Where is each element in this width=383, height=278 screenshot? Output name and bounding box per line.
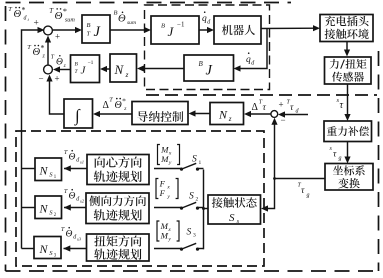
svg-text:N: N	[39, 242, 49, 256]
svg-text:Θ: Θ	[118, 14, 126, 25]
svg-text:−: −	[281, 115, 286, 125]
wire: contact state block to switch bus	[204, 208, 209, 210]
svg-text:Θ: Θ	[33, 47, 41, 58]
wire: planner block 3 to N_S3	[64, 248, 87, 250]
svg-text:*: *	[21, 5, 25, 14]
outer dashed frame bottom edge	[6, 270, 379, 272]
block robot 机器人	[214, 16, 261, 44]
svg-text:q: q	[246, 55, 251, 65]
block integrator	[64, 99, 93, 128]
svg-text:τ: τ	[263, 103, 267, 113]
svg-text:N: N	[114, 62, 125, 77]
svg-text:+: +	[55, 32, 60, 42]
svg-text:S: S	[187, 227, 192, 237]
wire: switch S3 to planner block 3	[154, 248, 182, 250]
wire: S3 contact stub	[198, 248, 204, 250]
svg-text:Θ: Θ	[66, 230, 73, 240]
block coordinate transform 坐标系变换	[325, 164, 373, 191]
svg-text:s3: s3	[77, 236, 82, 241]
block N_S3	[34, 237, 61, 259]
svg-text:x: x	[167, 227, 171, 233]
svg-text:τ: τ	[301, 186, 305, 196]
svg-text:M: M	[160, 154, 169, 164]
outer dashed frame left edge	[5, 6, 7, 271]
wire: sensor to gravity compensation	[347, 84, 349, 119]
block force/torque sensor 力/扭矩传感器	[325, 57, 372, 84]
wire: contact-state switch bus	[203, 170, 205, 250]
block charging plug contact environment 充电插头接触环境	[320, 15, 373, 42]
svg-text:−: −	[39, 73, 44, 83]
svg-text:d: d	[24, 16, 27, 22]
svg-text:T: T	[109, 97, 113, 104]
block Nz 2	[210, 103, 244, 125]
svg-text:*: *	[40, 43, 44, 52]
wire: coordinate transform output left	[275, 178, 326, 180]
summing junction 3	[271, 111, 278, 118]
wire: admittance control to integrator	[96, 113, 133, 115]
svg-text:sum: sum	[65, 17, 75, 23]
svg-text:τ: τ	[340, 100, 344, 111]
wire: B/T J^-1 to junction 2	[56, 69, 71, 71]
wire: BJ to Nz	[140, 68, 185, 70]
wire: planner block 2 to N_S2	[64, 207, 86, 209]
svg-text:Θ: Θ	[115, 100, 122, 111]
svg-text:z: z	[63, 63, 66, 69]
svg-text:Θ: Θ	[69, 153, 76, 163]
svg-text:S: S	[192, 155, 197, 165]
controller region dashed divider	[146, 94, 377, 96]
wire: N_S3 to left bus	[22, 248, 35, 250]
block B/T J^-1	[71, 55, 100, 83]
svg-text:B: B	[87, 22, 91, 29]
svg-text:−1: −1	[88, 60, 94, 66]
svg-text:T: T	[27, 44, 31, 51]
wire: junction 2 up to junction 1	[47, 38, 49, 65]
wire: switch S2 to planner block 2	[154, 207, 182, 209]
svg-text:x: x	[166, 185, 170, 191]
block admittance control 导纳控制	[132, 102, 188, 125]
switch S1	[182, 163, 197, 169]
svg-text:3: 3	[193, 233, 196, 239]
svg-text:1: 1	[199, 160, 202, 166]
svg-text:*: *	[122, 96, 126, 105]
svg-text:S: S	[229, 212, 235, 224]
svg-text:z: z	[228, 115, 232, 123]
robot subsystem dashed box	[145, 5, 270, 90]
svg-text:T: T	[87, 31, 91, 38]
svg-text:*: *	[63, 7, 67, 16]
svg-text:y: y	[167, 237, 171, 243]
svg-text:N: N	[39, 201, 49, 215]
svg-text:τ: τ	[333, 150, 337, 160]
block BJ^-1	[151, 16, 199, 44]
matrix [Mx;My] row 3	[157, 221, 159, 241]
svg-text:τ: τ	[290, 103, 294, 113]
svg-text:F: F	[159, 188, 166, 198]
matrix [Fx;Fy] row 2	[156, 179, 158, 199]
svg-text:Θ: Θ	[69, 192, 76, 202]
wire: planner block 1 to N_S1	[64, 168, 87, 170]
outer dashed frame top edge	[6, 2, 292, 4]
block N_S1	[35, 158, 62, 181]
block N_S2	[35, 196, 62, 219]
wire: tau_g down to contact state block	[264, 179, 275, 209]
wire: gravity compensation to coordinate transform	[347, 142, 349, 162]
wire: S1 contact stub	[198, 168, 204, 170]
svg-text:2: 2	[196, 197, 199, 203]
block centripetal trajectory planning 向心方向轨迹规划	[87, 155, 149, 185]
svg-text:z: z	[125, 70, 129, 79]
wire: junction 3 to Nz2	[247, 113, 271, 115]
block contact state 接触状态	[208, 195, 261, 224]
block Nz (nullspace) 1	[110, 54, 137, 82]
wire: robot to charging-plug environment	[261, 27, 318, 29]
wire: switch S1 to planner block 1	[154, 168, 182, 170]
matrix [Mx;My] row 1	[158, 145, 160, 165]
summing junction 2	[44, 65, 53, 74]
svg-text:B: B	[161, 23, 165, 30]
svg-text:y: y	[168, 160, 172, 166]
wire: B/T J to BJ^-1	[110, 29, 149, 31]
svg-text:S: S	[189, 191, 194, 201]
svg-text:Δ: Δ	[252, 102, 259, 113]
svg-text:T: T	[8, 6, 12, 13]
svg-text:B: B	[114, 10, 118, 17]
block gravity compensation 重力补偿	[324, 121, 372, 142]
switch S3	[182, 243, 197, 249]
svg-text:g: g	[307, 193, 310, 199]
svg-text:+: +	[34, 19, 39, 29]
svg-text:s2: s2	[80, 198, 85, 203]
block BJ	[184, 55, 234, 81]
svg-text:+: +	[279, 100, 284, 110]
svg-text:N: N	[39, 163, 49, 177]
svg-text:Θ: Θ	[56, 58, 63, 68]
block B/T J (transform)	[82, 15, 110, 43]
svg-text:J: J	[206, 63, 213, 79]
trajectory planner dashed box	[16, 131, 264, 266]
wire: qd feedback branch down to BJ	[236, 29, 267, 69]
wire: charging plug to force/torque sensor	[346, 42, 348, 55]
svg-text:x: x	[168, 151, 172, 157]
switch S2	[182, 202, 197, 208]
wire: N_S2 to left bus	[22, 207, 36, 209]
svg-text:g: g	[339, 156, 342, 162]
svg-text:+: +	[55, 73, 60, 83]
wire: N_S1 to left bus	[22, 168, 36, 170]
wire: tau_g up to junction 3	[274, 120, 276, 179]
svg-text:Θ: Θ	[14, 9, 22, 20]
wire: integrator out to junction 2	[50, 77, 65, 114]
svg-text:N: N	[218, 108, 228, 122]
outer dashed frame right edge	[378, 51, 380, 271]
wire: BJ^-1 to robot	[199, 29, 212, 31]
svg-text:J: J	[94, 24, 101, 40]
wire: junction 1 to B/T J block	[53, 29, 80, 31]
wire: S2 contact stub	[198, 207, 204, 209]
svg-text:B: B	[199, 60, 204, 68]
svg-text:Θ: Θ	[55, 10, 63, 22]
block lateral-force trajectory planning 侧向力方向轨迹规划	[86, 193, 149, 224]
summing junction 1	[44, 26, 53, 35]
block torque trajectory planning 扭矩方向轨迹规划	[87, 234, 150, 261]
wire: tau_d input to junction 3	[281, 114, 309, 116]
svg-text:s1: s1	[80, 159, 84, 164]
wire: Nz to B/T J^-1	[103, 68, 111, 70]
svg-text:q: q	[202, 14, 207, 24]
svg-text:y: y	[166, 194, 170, 200]
svg-text:−1: −1	[177, 21, 185, 29]
wire: Nz2 to admittance control	[191, 113, 210, 115]
wire: planner bus up to summing junction 1	[22, 30, 42, 249]
svg-text:M: M	[160, 231, 169, 241]
svg-text:sum: sum	[127, 20, 136, 26]
